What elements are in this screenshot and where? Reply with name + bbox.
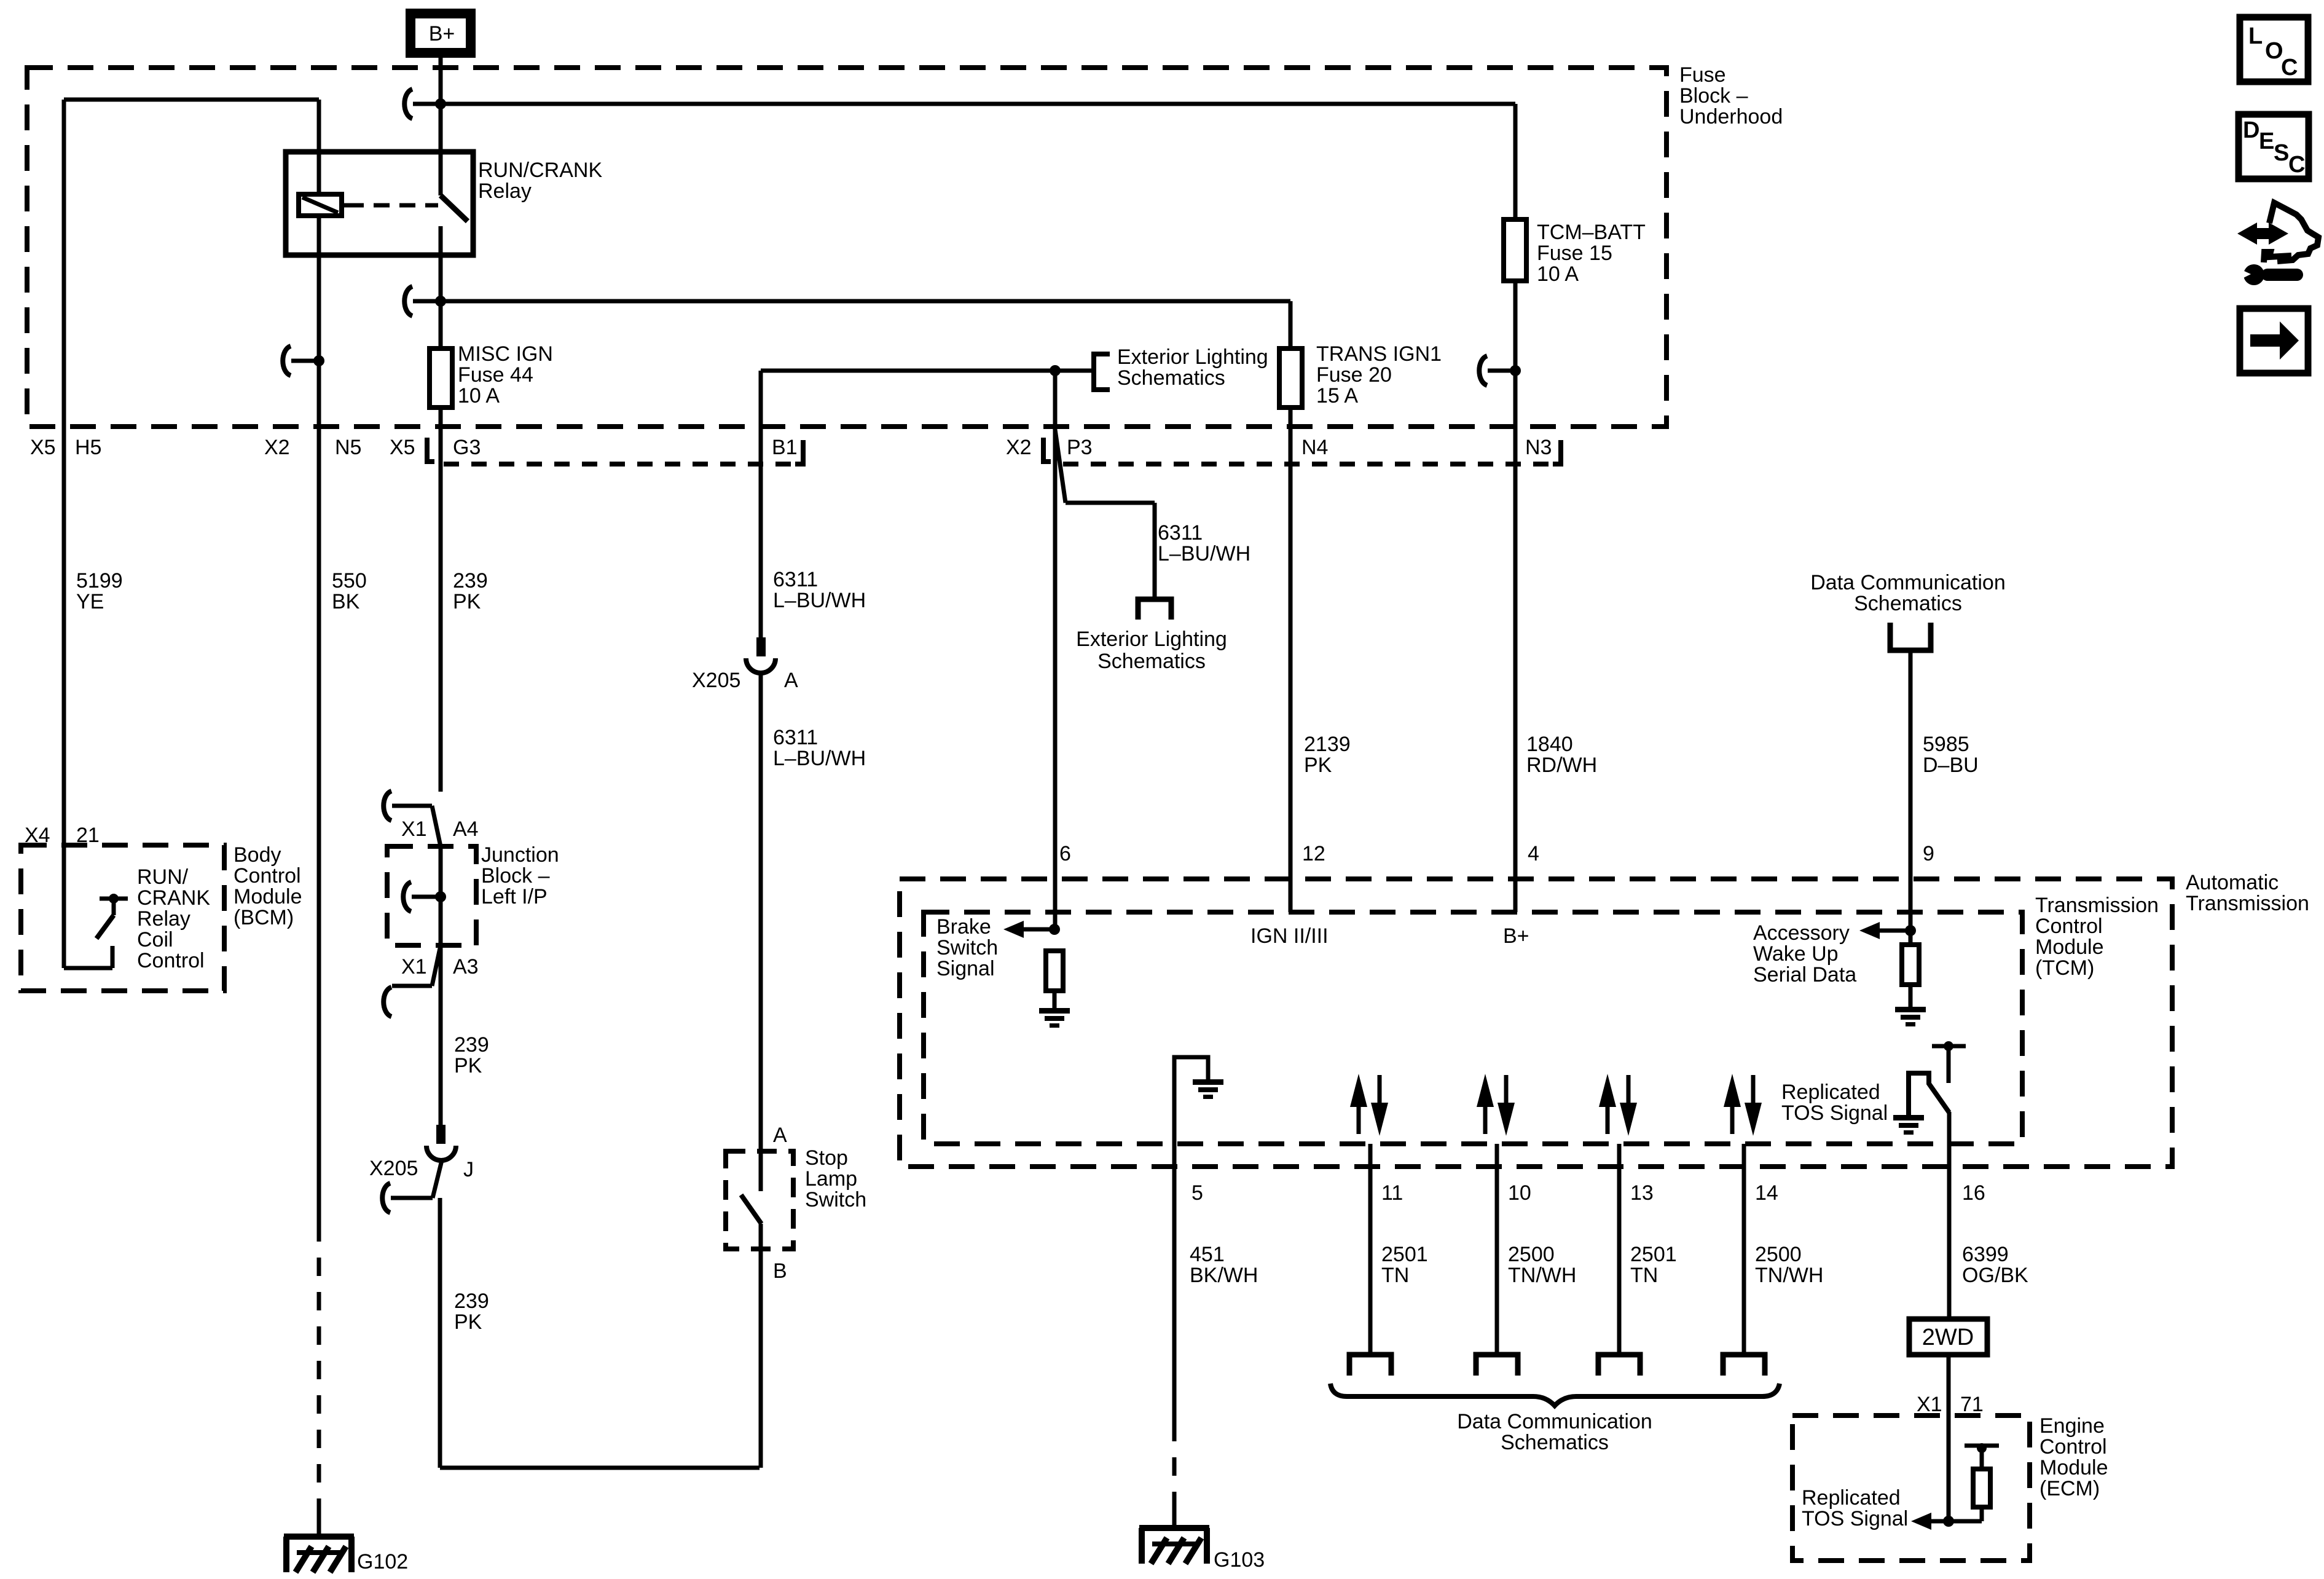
svg-text:Switch: Switch xyxy=(805,1188,866,1211)
svg-text:10 A: 10 A xyxy=(1537,262,1579,286)
svg-text:Block –: Block – xyxy=(1679,84,1748,108)
svg-text:5199: 5199 xyxy=(76,569,123,593)
svg-text:9: 9 xyxy=(1923,842,1934,865)
svg-text:N3: N3 xyxy=(1525,436,1552,459)
svg-text:451: 451 xyxy=(1190,1243,1225,1266)
svg-text:RUN/: RUN/ xyxy=(137,865,189,889)
svg-text:2WD: 2WD xyxy=(1922,1325,1974,1350)
svg-text:Schematics: Schematics xyxy=(1097,650,1206,673)
svg-text:RUN/CRANK: RUN/CRANK xyxy=(478,159,602,182)
svg-text:Block –: Block – xyxy=(481,864,550,888)
svg-text:Underhood: Underhood xyxy=(1679,105,1783,128)
svg-text:4: 4 xyxy=(1528,842,1539,865)
svg-text:Lamp: Lamp xyxy=(805,1167,857,1191)
svg-text:Coil: Coil xyxy=(137,928,173,951)
svg-text:12: 12 xyxy=(1302,842,1325,865)
svg-text:Signal: Signal xyxy=(936,957,995,980)
svg-text:N5: N5 xyxy=(335,436,361,459)
svg-text:YE: YE xyxy=(76,590,104,613)
svg-text:239: 239 xyxy=(454,1033,489,1057)
svg-text:Body: Body xyxy=(234,843,281,867)
svg-text:10 A: 10 A xyxy=(458,384,500,408)
svg-text:G3: G3 xyxy=(453,436,481,459)
svg-text:Replicated: Replicated xyxy=(1802,1486,1901,1510)
svg-text:Exterior Lighting: Exterior Lighting xyxy=(1117,345,1268,369)
svg-text:B1: B1 xyxy=(772,436,798,459)
svg-text:Replicated: Replicated xyxy=(1781,1081,1880,1104)
svg-text:6311: 6311 xyxy=(773,568,818,591)
svg-text:MISC IGN: MISC IGN xyxy=(458,342,553,366)
svg-text:2500: 2500 xyxy=(1755,1243,1802,1266)
svg-text:B+: B+ xyxy=(429,22,455,45)
svg-text:Fuse 44: Fuse 44 xyxy=(458,363,533,387)
svg-text:Junction: Junction xyxy=(481,843,559,867)
svg-text:6399: 6399 xyxy=(1962,1243,2009,1266)
svg-text:B: B xyxy=(773,1259,787,1283)
svg-text:OG/BK: OG/BK xyxy=(1962,1264,2028,1287)
svg-text:PK: PK xyxy=(453,590,481,613)
svg-text:RD/WH: RD/WH xyxy=(1526,754,1597,777)
svg-text:Schematics: Schematics xyxy=(1117,366,1225,390)
svg-text:CRANK: CRANK xyxy=(137,886,210,910)
svg-text:P3: P3 xyxy=(1067,436,1093,459)
svg-text:Control: Control xyxy=(137,949,205,972)
svg-text:Serial Data: Serial Data xyxy=(1753,963,1856,986)
svg-text:Relay: Relay xyxy=(137,907,190,931)
svg-text:J: J xyxy=(463,1158,474,1181)
svg-text:(TCM): (TCM) xyxy=(2035,956,2094,980)
svg-text:Fuse 20: Fuse 20 xyxy=(1316,363,1392,387)
svg-text:Wake Up: Wake Up xyxy=(1753,942,1839,966)
svg-text:Schematics: Schematics xyxy=(1501,1431,1609,1454)
svg-text:(ECM): (ECM) xyxy=(2039,1477,2100,1500)
svg-text:X1: X1 xyxy=(401,955,427,979)
svg-text:Left I/P: Left I/P xyxy=(481,885,548,908)
svg-text:15 A: 15 A xyxy=(1316,384,1358,408)
svg-text:L–BU/WH: L–BU/WH xyxy=(1158,542,1250,565)
svg-text:Accessory: Accessory xyxy=(1753,921,1850,945)
svg-text:TN/WH: TN/WH xyxy=(1508,1264,1576,1287)
svg-text:Module: Module xyxy=(234,885,302,908)
svg-text:A4: A4 xyxy=(453,817,479,841)
svg-text:Stop: Stop xyxy=(805,1146,848,1170)
svg-text:Control: Control xyxy=(234,864,301,888)
svg-text:A: A xyxy=(784,669,798,692)
svg-text:13: 13 xyxy=(1630,1181,1654,1205)
svg-text:X5: X5 xyxy=(30,436,56,459)
svg-text:G103: G103 xyxy=(1214,1548,1265,1572)
svg-text:Fuse 15: Fuse 15 xyxy=(1537,242,1612,265)
svg-text:X2: X2 xyxy=(1006,436,1032,459)
svg-text:Schematics: Schematics xyxy=(1854,592,1962,615)
svg-text:5: 5 xyxy=(1191,1181,1203,1205)
svg-text:PK: PK xyxy=(1304,754,1332,777)
svg-text:TCM–BATT: TCM–BATT xyxy=(1537,221,1646,244)
svg-text:2501: 2501 xyxy=(1630,1243,1677,1266)
svg-text:BK/WH: BK/WH xyxy=(1190,1264,1258,1287)
svg-text:Data Communication: Data Communication xyxy=(1457,1410,1652,1433)
svg-text:X2: X2 xyxy=(264,436,290,459)
svg-text:TN: TN xyxy=(1381,1264,1409,1287)
svg-text:X205: X205 xyxy=(369,1157,418,1180)
svg-text:Data Communication: Data Communication xyxy=(1810,571,2005,594)
svg-text:Fuse: Fuse xyxy=(1679,63,1726,87)
svg-text:TOS Signal: TOS Signal xyxy=(1781,1101,1888,1125)
svg-text:6311: 6311 xyxy=(773,726,818,749)
svg-text:TRANS IGN1: TRANS IGN1 xyxy=(1316,342,1442,366)
svg-text:Exterior Lighting: Exterior Lighting xyxy=(1076,628,1227,651)
svg-text:6311: 6311 xyxy=(1158,521,1203,545)
svg-text:E: E xyxy=(2259,128,2274,154)
svg-text:D–BU: D–BU xyxy=(1923,754,1979,777)
svg-text:PK: PK xyxy=(454,1054,482,1077)
svg-text:PK: PK xyxy=(454,1310,482,1334)
svg-text:TN/WH: TN/WH xyxy=(1755,1264,1823,1287)
svg-text:Transmission: Transmission xyxy=(2186,892,2309,915)
svg-text:A3: A3 xyxy=(453,955,479,979)
svg-text:2139: 2139 xyxy=(1304,733,1351,756)
svg-text:IGN II/III: IGN II/III xyxy=(1250,924,1329,948)
svg-text:S: S xyxy=(2274,140,2289,166)
svg-text:N4: N4 xyxy=(1301,436,1328,459)
svg-text:239: 239 xyxy=(454,1290,489,1313)
svg-text:2500: 2500 xyxy=(1508,1243,1555,1266)
svg-text:550: 550 xyxy=(332,569,367,593)
svg-text:G102: G102 xyxy=(357,1550,408,1573)
svg-text:6: 6 xyxy=(1059,842,1071,865)
svg-text:Module: Module xyxy=(2035,935,2104,959)
svg-text:L–BU/WH: L–BU/WH xyxy=(773,747,866,770)
svg-text:1840: 1840 xyxy=(1526,733,1573,756)
svg-text:C: C xyxy=(2288,152,2305,178)
svg-text:H5: H5 xyxy=(75,436,101,459)
svg-text:11: 11 xyxy=(1381,1181,1403,1205)
svg-text:TOS Signal: TOS Signal xyxy=(1802,1507,1908,1530)
svg-text:L–BU/WH: L–BU/WH xyxy=(773,589,866,612)
svg-text:A: A xyxy=(773,1124,787,1147)
svg-text:239: 239 xyxy=(453,569,488,593)
svg-text:BK: BK xyxy=(332,590,360,613)
svg-text:(BCM): (BCM) xyxy=(234,906,294,929)
svg-text:X1: X1 xyxy=(401,817,427,841)
svg-text:Relay: Relay xyxy=(478,179,532,203)
svg-text:16: 16 xyxy=(1962,1181,1985,1205)
svg-text:Brake: Brake xyxy=(936,915,991,939)
svg-text:X5: X5 xyxy=(390,436,415,459)
svg-text:10: 10 xyxy=(1508,1181,1531,1205)
svg-text:Control: Control xyxy=(2035,915,2103,938)
svg-text:5985: 5985 xyxy=(1923,733,1969,756)
svg-text:71: 71 xyxy=(1960,1393,1984,1416)
svg-text:X205: X205 xyxy=(692,669,740,692)
svg-text:Control: Control xyxy=(2039,1435,2107,1459)
svg-text:2501: 2501 xyxy=(1381,1243,1428,1266)
svg-text:C: C xyxy=(2281,55,2298,81)
svg-text:B+: B+ xyxy=(1503,924,1529,948)
svg-text:Automatic: Automatic xyxy=(2186,871,2279,894)
svg-text:D: D xyxy=(2243,117,2259,143)
svg-text:Transmission: Transmission xyxy=(2035,894,2159,917)
svg-text:X1: X1 xyxy=(1917,1393,1942,1416)
svg-text:14: 14 xyxy=(1755,1181,1778,1205)
svg-text:Module: Module xyxy=(2039,1456,2108,1479)
svg-text:L: L xyxy=(2248,23,2263,49)
svg-text:TN: TN xyxy=(1630,1264,1658,1287)
svg-text:Engine: Engine xyxy=(2039,1414,2105,1438)
svg-text:Switch: Switch xyxy=(936,936,998,959)
